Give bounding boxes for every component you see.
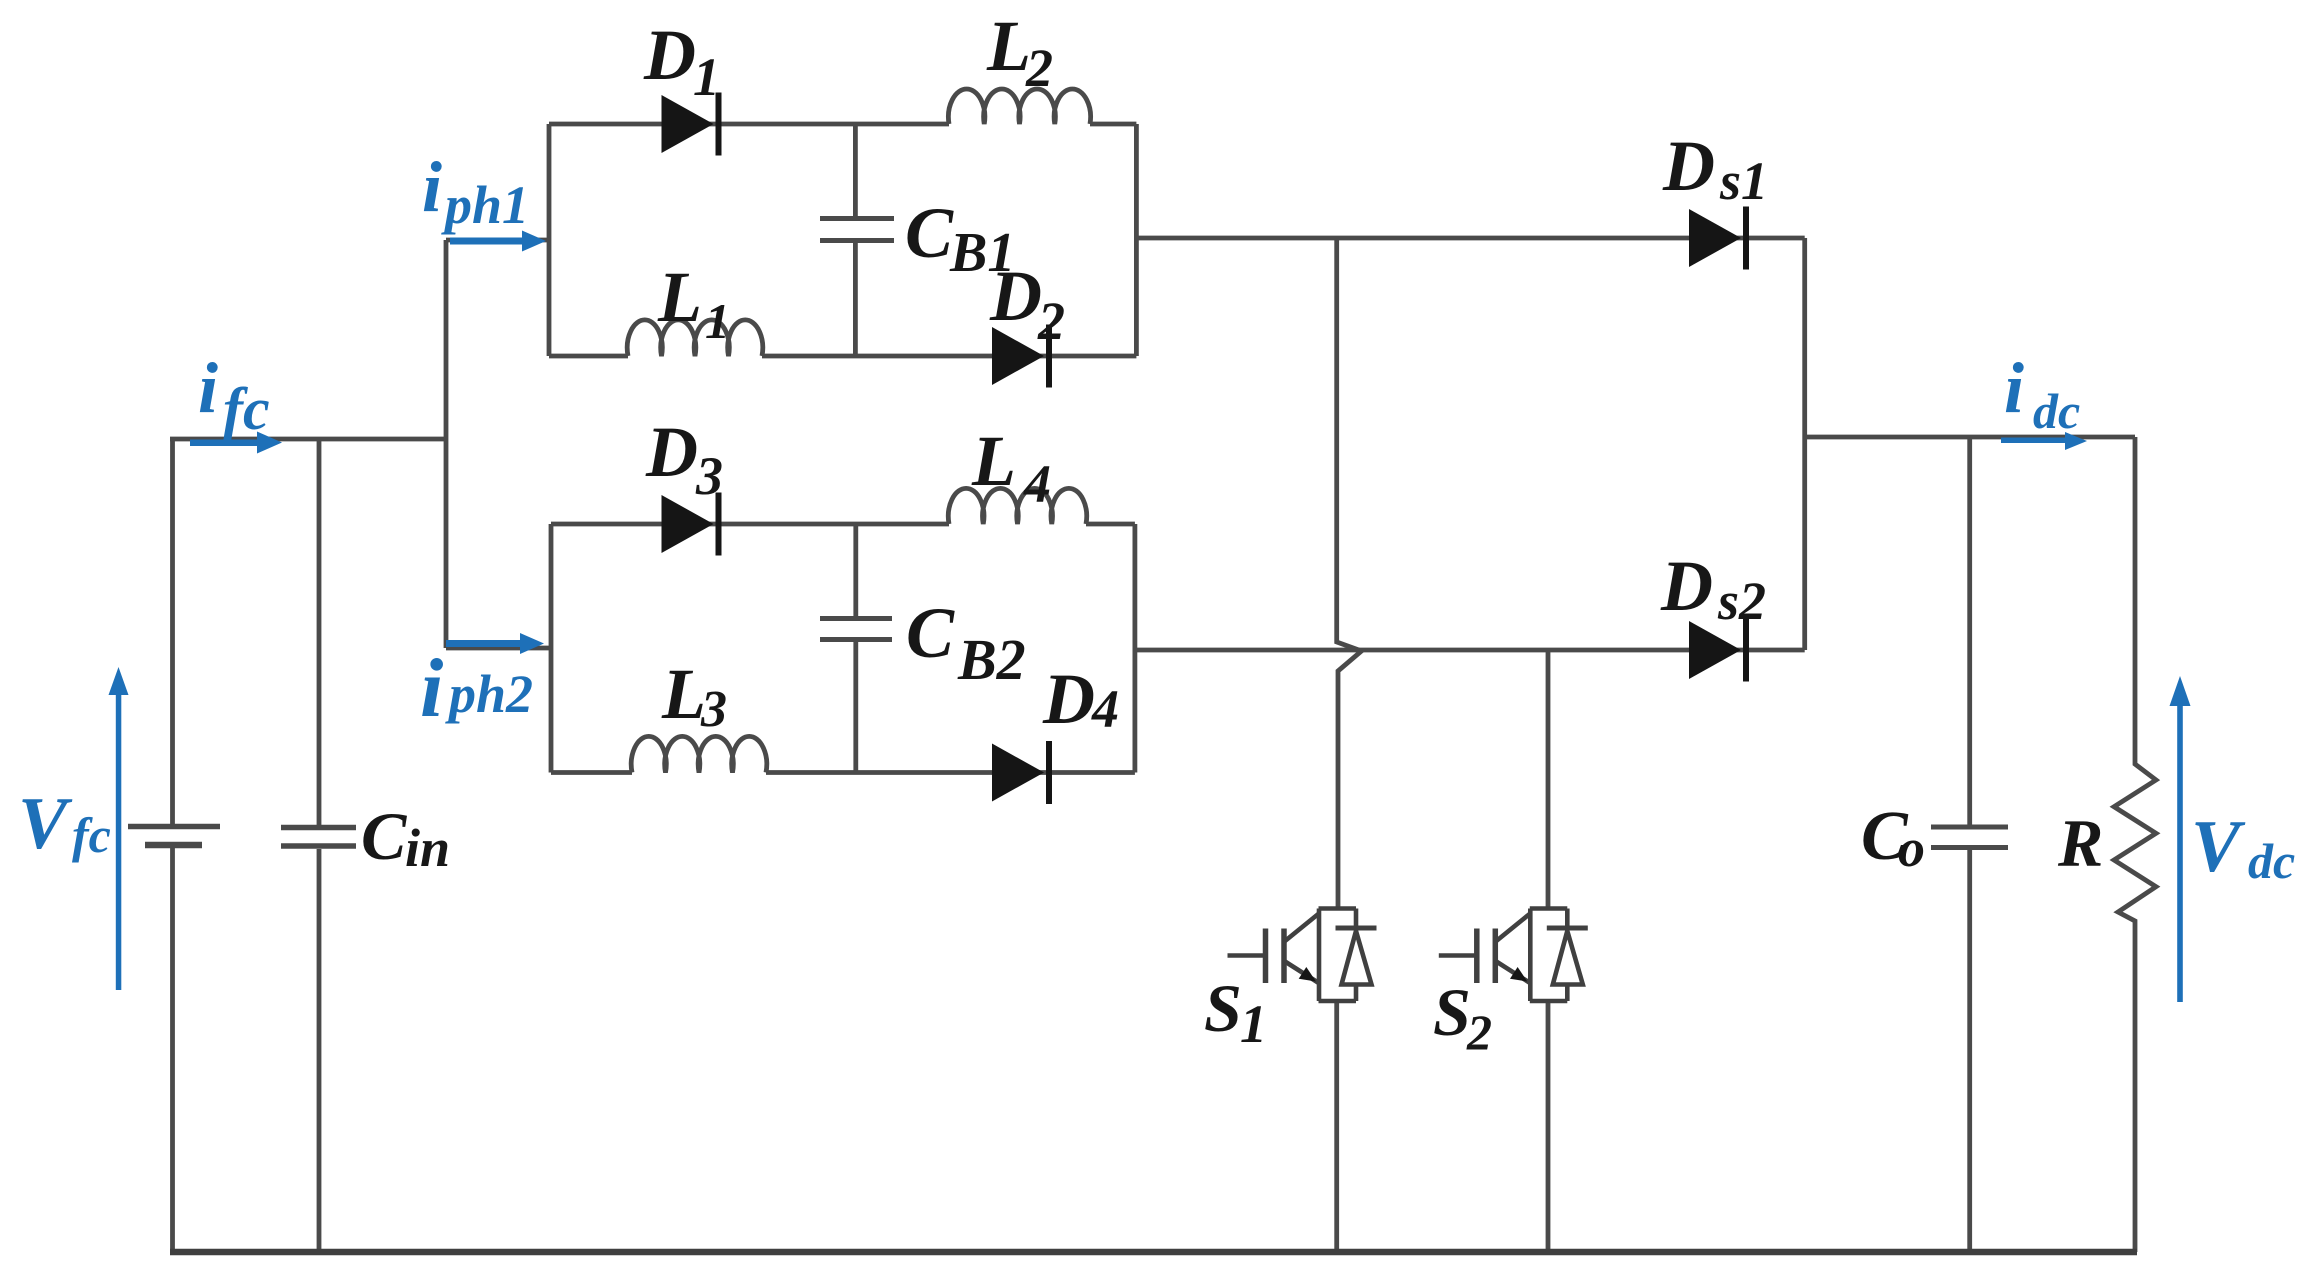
- svg-text:3: 3: [695, 446, 723, 506]
- svg-text:1: 1: [1240, 994, 1267, 1054]
- svg-text:2: 2: [1466, 1004, 1492, 1060]
- svg-text:S: S: [1204, 970, 1242, 1046]
- svg-text:C: C: [905, 193, 954, 273]
- svg-text:D: D: [1042, 659, 1095, 739]
- svg-text:4: 4: [1023, 454, 1051, 514]
- svg-text:o: o: [1898, 818, 1925, 878]
- svg-text:i: i: [198, 348, 218, 428]
- svg-text:D: D: [1660, 546, 1713, 626]
- svg-text:2: 2: [1025, 38, 1053, 98]
- svg-text:L: L: [657, 257, 702, 337]
- svg-text:R: R: [2057, 805, 2103, 881]
- svg-text:s1: s1: [1719, 151, 1768, 211]
- svg-text:i: i: [420, 642, 443, 735]
- svg-text:2: 2: [1037, 291, 1065, 351]
- svg-text:L: L: [661, 654, 706, 734]
- svg-text:ph1: ph1: [441, 175, 529, 235]
- svg-text:L: L: [986, 6, 1031, 86]
- svg-text:dc: dc: [2033, 383, 2080, 439]
- svg-text:S: S: [1433, 974, 1471, 1050]
- svg-text:s2: s2: [1717, 571, 1766, 631]
- svg-text:1: 1: [693, 47, 720, 107]
- svg-text:4: 4: [1091, 679, 1119, 739]
- svg-text:dc: dc: [2248, 833, 2295, 889]
- svg-text:1: 1: [705, 293, 730, 349]
- svg-text:in: in: [405, 818, 450, 878]
- svg-text:ph2: ph2: [445, 664, 533, 724]
- svg-text:C: C: [361, 798, 407, 874]
- svg-text:3: 3: [700, 681, 727, 738]
- svg-text:D: D: [989, 256, 1042, 336]
- svg-text:V: V: [2191, 806, 2246, 888]
- svg-text:V: V: [18, 783, 73, 865]
- svg-text:i: i: [422, 147, 442, 227]
- svg-text:D: D: [643, 15, 696, 95]
- svg-text:fc: fc: [223, 376, 270, 442]
- svg-text:C: C: [906, 593, 955, 673]
- svg-text:B2: B2: [957, 627, 1026, 692]
- svg-text:i: i: [2004, 348, 2024, 428]
- svg-text:D: D: [645, 412, 698, 492]
- svg-text:L: L: [971, 421, 1016, 501]
- svg-text:fc: fc: [72, 807, 111, 863]
- svg-text:D: D: [1662, 126, 1715, 206]
